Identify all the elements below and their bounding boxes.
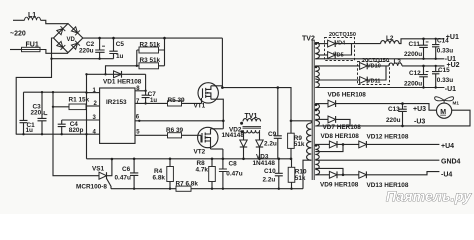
node Vcc rail [24,91,87,93]
wire TV1 secondary left to VD2 [243,132,245,141]
svg-text:C10: C10 [264,168,276,175]
svg-text:2.2u: 2.2u [263,176,276,183]
capacitor C7 1u [142,90,158,105]
svg-text:C9: C9 [268,131,277,138]
svg-text:VD12 HER108: VD12 HER108 [367,134,409,141]
transformer TV2 secondary winding 1 [315,42,320,59]
svg-text:VD8 HER108: VD8 HER108 [321,133,360,140]
svg-text:~220: ~220 [10,31,26,38]
transformer TV2 primary [303,123,311,189]
svg-text:VD9 HER108: VD9 HER108 [320,182,359,189]
wire Vcc node vertical [86,74,88,159]
capacitor C13 220u [386,102,407,127]
wire DC minus: bridge left vertex down-left to COM [16,38,53,134]
svg-text:C5: C5 [116,41,125,48]
svg-text:1u: 1u [26,127,34,134]
motor M1 fan [435,97,460,119]
wire fuse to bridge bottom vertex [40,50,68,54]
svg-text:C11: C11 [409,41,421,48]
wire minus U3 rail [319,110,470,126]
wire TV1 line to TV2 primary top [291,121,311,123]
svg-text:2.2u: 2.2u [264,141,277,148]
resistor R1 15k [52,96,90,109]
capacitor C5 1u [109,37,124,60]
fuse FU1 [22,41,41,51]
wire minus U1 rail block2 [319,87,444,89]
diode VD11 [319,66,386,85]
transformer TV2 secondary winding 3 [315,104,320,127]
svg-text:+U2: +U2 [447,62,460,69]
diode VD6 HER108 [319,91,436,110]
inductor L1 [25,12,41,20]
svg-text:VT1: VT1 [194,102,206,109]
svg-text:1N4148: 1N4148 [222,132,245,139]
svg-text:VD7 HER108: VD7 HER108 [323,124,362,131]
svg-text:VD1 HER108: VD1 HER108 [103,79,142,86]
svg-text:1u: 1u [116,53,124,60]
svg-text:VS1: VS1 [92,165,105,172]
svg-text:2200u: 2200u [404,51,422,58]
svg-text:0.47u: 0.47u [115,175,131,182]
svg-text:GND4: GND4 [441,158,461,165]
wire VT1 source to midpoint [211,99,223,129]
op-amp U1 IR2153 IC box [100,88,135,143]
svg-text:-U1: -U1 [445,86,456,93]
capacitor C4 820p [58,120,84,135]
svg-text:Паятель.ру: Паятель.ру [386,188,472,204]
capacitor C2 220u [79,37,105,60]
svg-text:+U4: +U4 [441,143,454,150]
inductor L3 [389,58,445,66]
resistor R5 39 [168,97,202,106]
wire AC line 2 to fuse [10,49,22,51]
diode VD3 1N4148 [253,140,276,167]
svg-text:2200u: 2200u [404,81,422,88]
svg-text:0.33u: 0.33u [437,47,453,54]
resistor R3 51k [137,57,165,69]
wire L1 to bridge top [41,20,69,23]
svg-text:220u: 220u [31,109,46,116]
diode pair 20CTQ150 dashed box VD4 VD5 [325,32,356,61]
capacitor C10 2.2u [263,158,283,190]
svg-text:R5 39: R5 39 [168,97,185,104]
wire winding tap loop to VD9 cathode [319,168,343,174]
svg-text:1N4148: 1N4148 [253,160,276,167]
svg-text:0.33u: 0.33u [437,77,453,84]
svg-text:VT2: VT2 [194,148,206,155]
svg-text:IR2153: IR2153 [106,99,127,106]
svg-text:TV2: TV2 [302,36,315,43]
wire minus U1 rail block1 [319,58,444,60]
diode bridge VD [54,24,83,53]
thyristor VS1 MCR100-8 [53,92,112,190]
svg-text:+U3: +U3 [413,106,426,113]
diode VD10 [319,63,389,70]
svg-text:220u: 220u [386,117,401,124]
svg-text:C12: C12 [409,70,421,77]
capacitor C12 2200u [404,65,429,89]
capacitor C9 2.2u [264,88,282,159]
resistor R10 51k [288,159,307,190]
wire midpoint top line to TV2 primary [222,88,291,121]
svg-text:51k: 51k [294,141,305,148]
inductor L2 [381,35,445,44]
svg-text:VD11: VD11 [367,78,380,84]
diode VD4 [319,40,381,47]
wire DC plus rail from bridge right vertex [83,37,223,39]
svg-text:220u: 220u [79,48,94,55]
capacitor C15 0.33u [432,65,453,89]
wire DC minus rail under C2 C5 [52,58,114,60]
wire TV1 secondary right to VD3 [259,132,261,141]
transistor Q2 VT2 mosfet [194,127,219,155]
diode VD12 HER108 [359,134,440,148]
capacitor C6 0.47u [115,158,139,190]
svg-text:MCR100-8: MCR100-8 [76,184,107,191]
svg-text:820p: 820p [69,127,84,134]
node bottom rail [111,188,303,190]
diode VD7 HER108 [319,116,361,131]
transformer TV2 secondary winding 4 [315,144,320,175]
svg-text:20CTQ150: 20CTQ150 [329,32,356,38]
capacitor C3 220u [31,92,48,135]
capacitor C11 2200u [404,38,429,61]
diode VD8 HER108 [319,133,359,148]
wire AC line 1 to L1 [13,19,25,21]
svg-text:51k: 51k [295,175,306,182]
transistor Q1 VT1 mosfet [194,83,219,110]
capacitor C14 0.33u [432,37,453,60]
wire GND4 [319,159,439,161]
wire VT2 source to C8 [211,148,223,150]
svg-text:M1: M1 [453,101,460,106]
capacitor C8 0.47u [219,149,243,190]
svg-text:-U3: -U3 [414,119,425,126]
svg-text:-U4: -U4 [441,171,452,178]
diode VD1 HER108 [87,71,146,86]
diode VD9 HER108 [319,171,359,188]
svg-text:C6: C6 [122,166,131,173]
transformer TV2 secondary winding 2 [315,66,320,88]
resistor R6 39 [166,127,201,138]
transformer TV2 core [302,36,315,181]
diode pair 20CTQ150 dashed box VD10 VD11 [358,58,390,85]
wire R2 R3 left common down to VD1 node [106,50,137,74]
node mid control line [87,158,292,160]
transformer TV1 [240,113,261,133]
wire VD1 cathode down to pin8 and C7 [145,74,147,95]
svg-text:4.7k: 4.7k [196,166,209,173]
wire R2 R3 right common up to plus rail [164,38,166,66]
diode VD13 HER108 [359,171,440,189]
resistor R2 51k [137,42,165,54]
resistor R4 6.8k [153,158,174,190]
svg-text:VD: VD [67,37,76,43]
diode VD2 1N4148 [222,126,248,160]
svg-text:+U1: +U1 [446,34,459,41]
svg-text:C8: C8 [229,161,238,168]
svg-text:6.8k: 6.8k [153,174,166,181]
wire winding tap loop to VD8 cathode [319,144,343,151]
diode VD5 [319,44,352,59]
svg-text:VD6 HER108: VD6 HER108 [328,91,367,98]
svg-text:0.47u: 0.47u [226,170,242,177]
resistor R8 4.7k [196,158,216,190]
resistor R7 6.8k [176,180,199,191]
svg-text:M: M [440,109,446,116]
wire VT1 drain to plus rail [211,38,223,88]
capacitor C1 1u [20,92,36,135]
wire VT2 drain to midpoint [211,128,224,130]
resistor R9 51k [288,121,305,160]
